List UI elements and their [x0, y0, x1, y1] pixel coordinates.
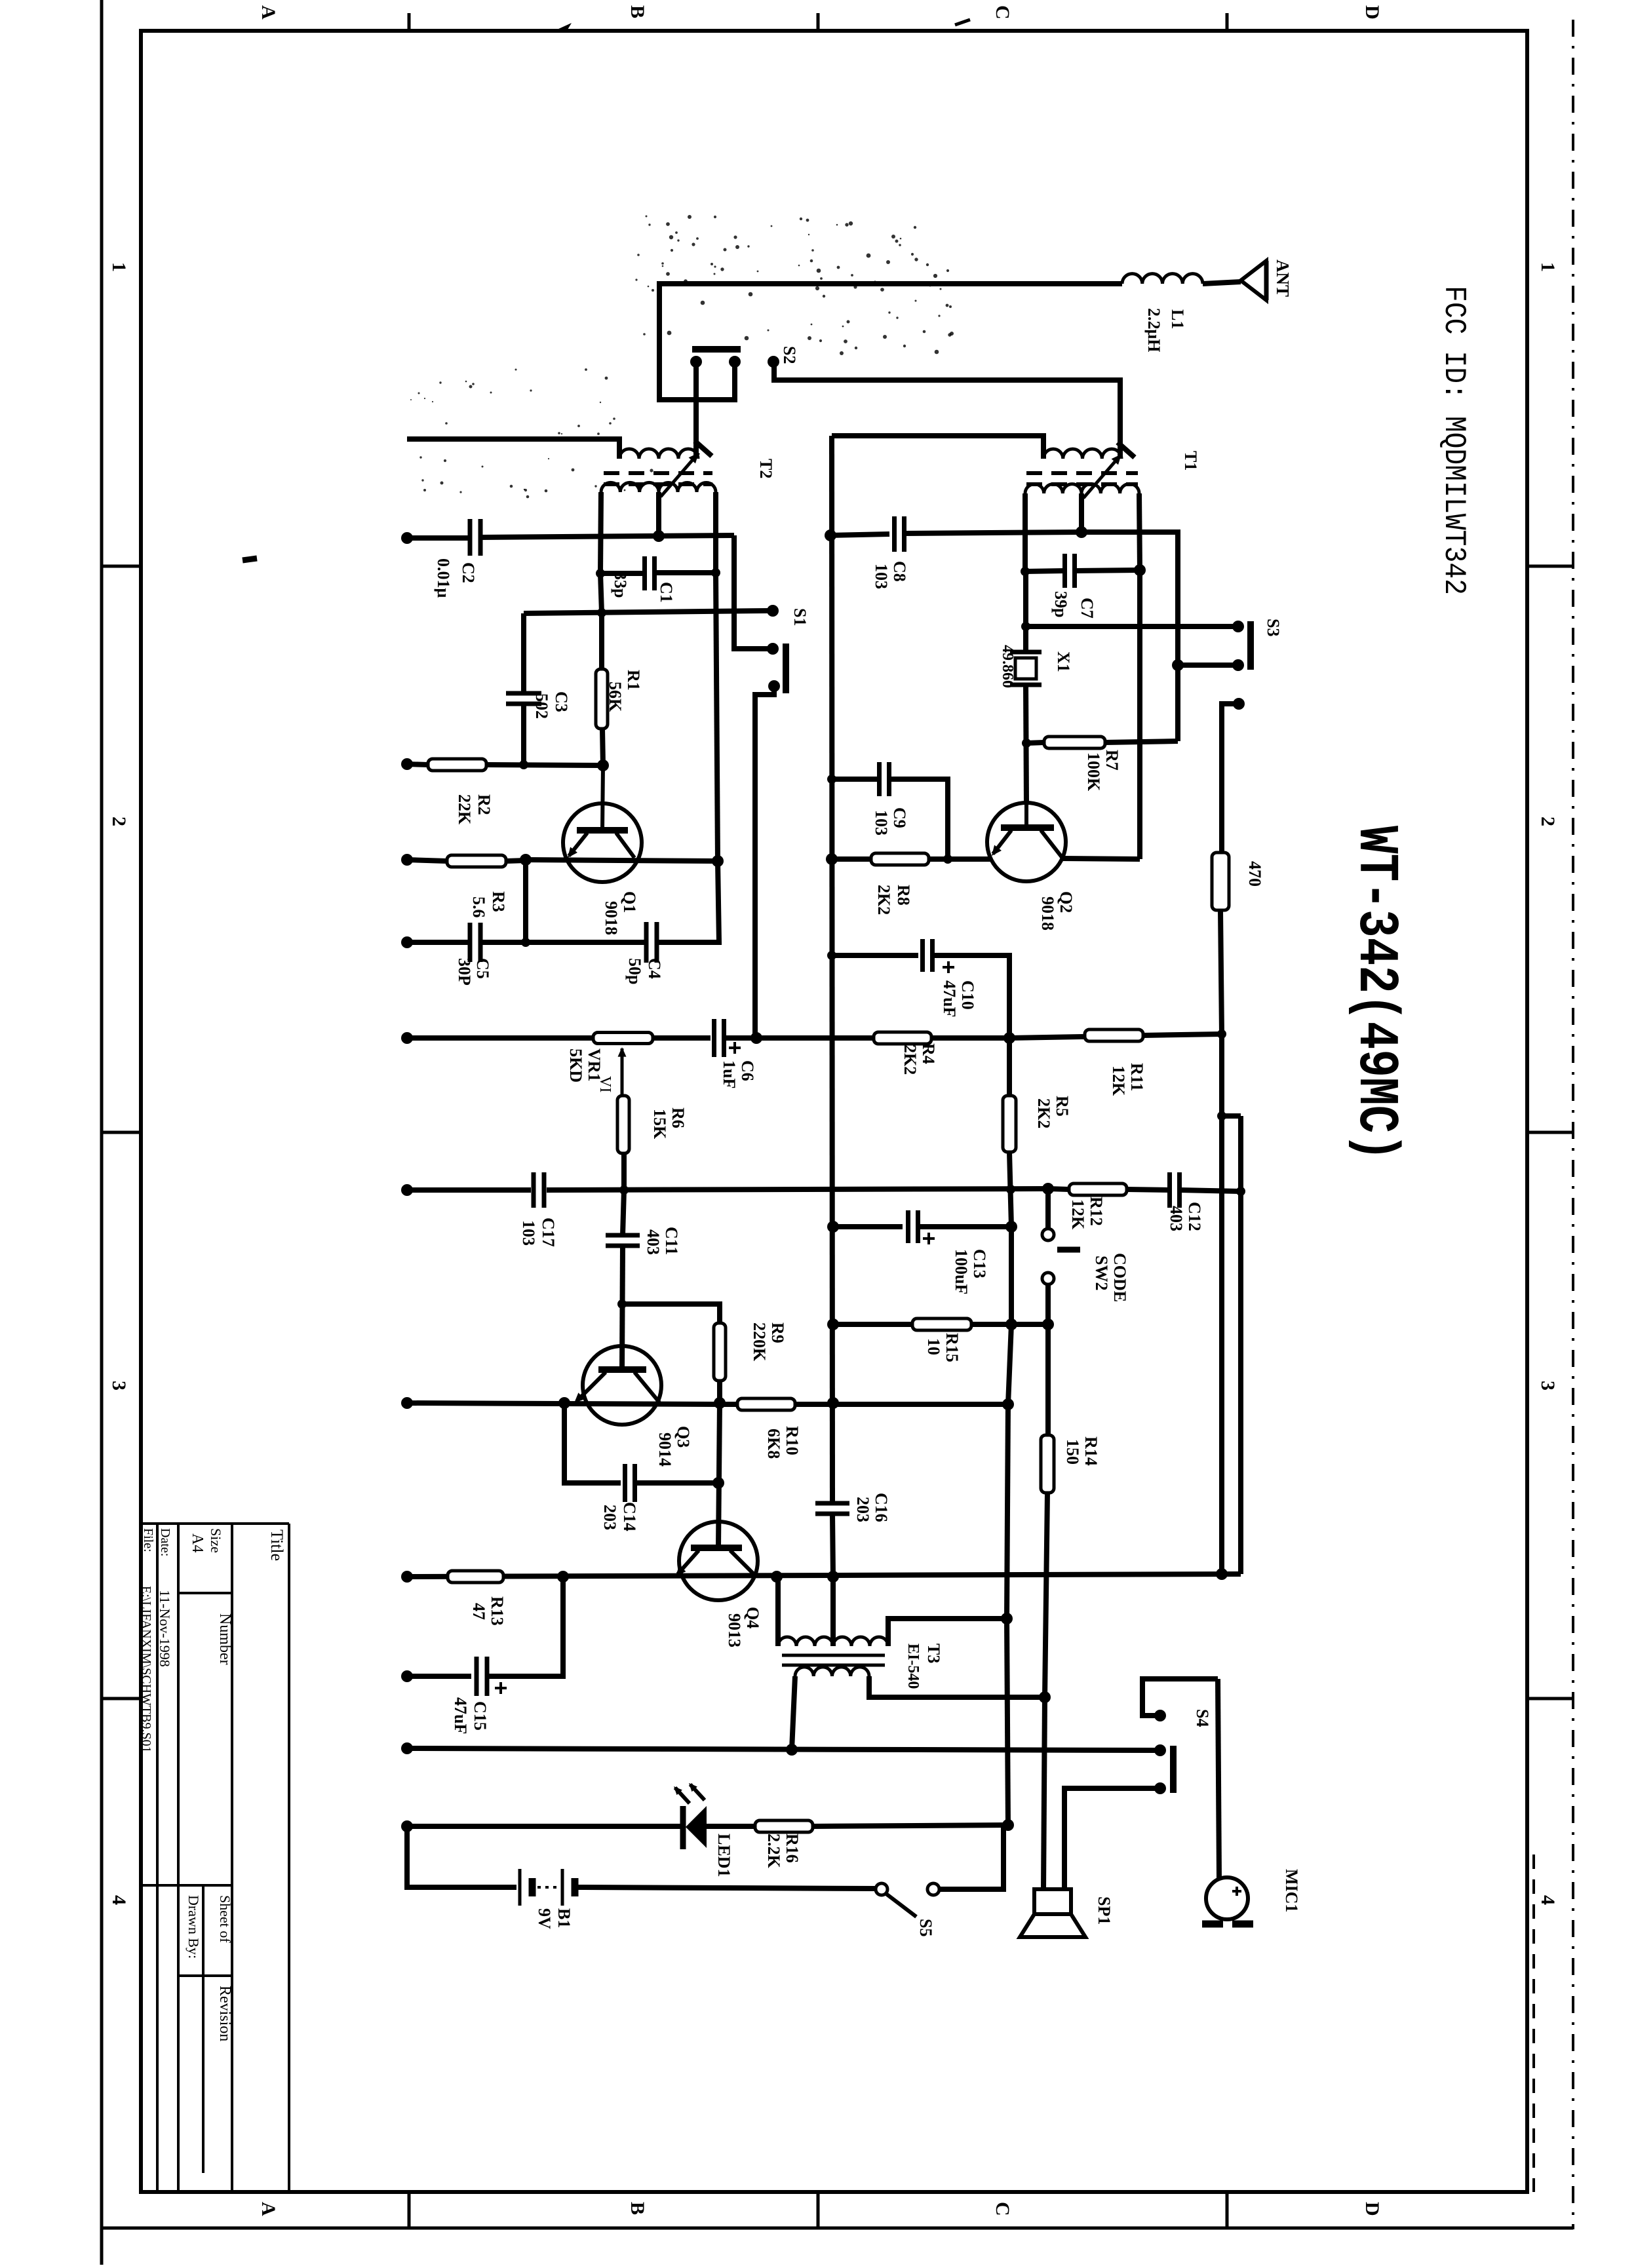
wire T2 secondary right leg — [713, 492, 718, 573]
wire R14 column top — [1045, 1324, 1051, 1435]
node R9 bottom junction — [714, 1397, 726, 1409]
svg-text:Sheet of: Sheet of — [217, 1895, 233, 1943]
switch S1 bottom contact — [768, 680, 780, 692]
svg-text:2: 2 — [1537, 817, 1559, 826]
zone tick marks right — [1527, 565, 1573, 568]
wire R5 bottom column — [1009, 1152, 1011, 1227]
capacitor C2 — [468, 519, 473, 556]
node R16 right junction — [1002, 1819, 1014, 1831]
wire R9 top link — [622, 1304, 720, 1323]
zone tick marks bottom — [408, 2192, 411, 2228]
node emitter rail right junction — [712, 855, 724, 867]
svg-text:C17: C17 — [539, 1218, 558, 1247]
wire SW2 bottom — [1045, 1284, 1051, 1324]
wire Q2 emitter link — [929, 856, 991, 862]
capacitor C8 — [892, 516, 897, 552]
svg-text:2.2μH: 2.2μH — [1144, 308, 1163, 352]
svg-text:C: C — [992, 2202, 1013, 2216]
wire T1 secondary tap — [1079, 493, 1084, 532]
node R13 right junction — [557, 1571, 569, 1583]
node C13 left junction — [827, 1221, 839, 1233]
wire V rail vertical lower — [832, 1514, 833, 1577]
node R2 right junction — [597, 759, 609, 771]
node R5 C17rail junction — [1006, 1185, 1015, 1194]
svg-text:C3: C3 — [552, 691, 571, 712]
wire T3 primary left leg — [775, 1577, 781, 1646]
wire T2 secondary left leg — [600, 492, 601, 573]
wire right column C12 branch — [1238, 1116, 1243, 1574]
capacitor C13 — [906, 1210, 910, 1243]
svg-text:R11: R11 — [1127, 1063, 1146, 1091]
svg-text:Q2: Q2 — [1057, 891, 1076, 913]
wire supply rail VR1 row — [407, 1035, 593, 1041]
wire R12 left — [1048, 1189, 1069, 1189]
wire T1 primary right leg — [1118, 380, 1123, 459]
capacitor C9 — [877, 762, 882, 796]
svg-text:R7: R7 — [1102, 750, 1121, 771]
wire C17 right — [547, 1189, 1048, 1190]
node C7 left junction — [1021, 567, 1030, 576]
svg-text:103: 103 — [872, 564, 891, 589]
node R2 left rail junction — [401, 758, 413, 770]
wire antenna line to S2 loop — [659, 284, 1122, 400]
wire R8 left — [832, 856, 871, 862]
svg-text:Q1: Q1 — [620, 891, 639, 913]
wire C7 right — [1075, 570, 1140, 571]
wire Q3 emitter rail — [407, 1403, 720, 1404]
wire column to R16 rail — [1007, 1619, 1008, 1825]
wire 470 bottom — [1220, 910, 1222, 1034]
wire C13 rail — [833, 1224, 903, 1229]
node T3 left leg junction — [771, 1571, 783, 1583]
svg-text:R8: R8 — [894, 885, 913, 906]
switch S2 throw contact — [768, 356, 779, 368]
svg-text:Q4: Q4 — [743, 1607, 762, 1628]
wire C5 to C4 — [480, 940, 646, 945]
resistor R3 — [447, 855, 506, 867]
svg-text:S1: S1 — [790, 608, 809, 626]
wire T2 left leg down to R1 top node — [600, 573, 602, 613]
transformer T2 tuning arrow — [661, 453, 699, 497]
wire S4 upper to MIC column — [1142, 1679, 1218, 1716]
svg-text:C: C — [992, 5, 1013, 20]
svg-text:R13: R13 — [488, 1596, 507, 1626]
sheet border outer left line — [100, 0, 104, 2265]
svg-text:11-Nov-1998: 11-Nov-1998 — [157, 1590, 173, 1667]
sheet border outer right dash-dot line — [1572, 20, 1574, 2229]
svg-text:R3: R3 — [489, 891, 508, 912]
svg-text:47uF: 47uF — [451, 1697, 470, 1734]
node C12 right junction — [1236, 1187, 1245, 1196]
wire S3 bottom link — [1178, 663, 1235, 668]
resistor R4 — [874, 1032, 931, 1044]
svg-text:12K: 12K — [1068, 1199, 1087, 1230]
svg-text:C9: C9 — [890, 807, 909, 828]
capacitor C17 — [532, 1172, 536, 1208]
node X1 top junction — [1021, 622, 1030, 631]
transformer T2 secondary winding — [601, 482, 659, 492]
node T3 secondary right junction — [1039, 1691, 1051, 1703]
wire S1 bottom contact down to supply rail — [755, 689, 774, 1038]
svg-text:150: 150 — [1063, 1439, 1082, 1465]
wire C9 right loop — [889, 779, 948, 859]
capacitor C7 — [1062, 554, 1067, 588]
svg-text:2.2K: 2.2K — [764, 1834, 783, 1869]
node LED rail left junction — [401, 1820, 413, 1832]
switch S1 bar — [783, 644, 789, 693]
wire T2 right leg down to emitter rail — [716, 573, 718, 861]
svg-text:Date:: Date: — [158, 1528, 172, 1556]
resistor R2 — [428, 759, 486, 771]
svg-text:100uF: 100uF — [952, 1249, 971, 1294]
node C3 bottom junction — [519, 760, 528, 769]
wire LED rail — [407, 1824, 682, 1829]
wire X1 top stub — [1023, 571, 1028, 652]
svg-text:File:: File: — [141, 1528, 155, 1552]
wire C12 right — [1180, 1190, 1241, 1191]
wire 470 column lower — [1219, 1034, 1224, 1574]
svg-text:C7: C7 — [1078, 598, 1097, 619]
transformer T3 secondary winding — [795, 1667, 869, 1676]
title block divider number-revision — [178, 1974, 232, 1977]
wire C13 right — [918, 1224, 1011, 1229]
svg-text:D: D — [1361, 5, 1383, 20]
wire T3 primary center tap — [830, 1577, 836, 1646]
node right link junction — [1217, 1111, 1226, 1121]
svg-text:R9: R9 — [768, 1322, 787, 1343]
wire Q4 collector rail — [407, 1574, 1241, 1577]
svg-text:R10: R10 — [783, 1426, 802, 1455]
svg-text:470: 470 — [1245, 861, 1264, 887]
svg-text:49.860: 49.860 — [999, 645, 1016, 688]
wire R15 right — [971, 1322, 1048, 1327]
wire R14 bottom — [1045, 1493, 1047, 1697]
svg-text:50p: 50p — [625, 958, 644, 984]
svg-text:VI: VI — [596, 1076, 613, 1092]
wire ground rail — [407, 1748, 1156, 1750]
capacitor C1 — [642, 556, 647, 590]
C10 polarity plus — [943, 966, 954, 969]
transistor Q2 — [987, 803, 1066, 881]
svg-text:B: B — [627, 2202, 648, 2215]
svg-text:203: 203 — [853, 1497, 872, 1522]
svg-text:403: 403 — [644, 1229, 663, 1255]
node C9 emitter junction — [943, 855, 952, 864]
transistor Q1 — [563, 803, 642, 882]
wire C3 loop top — [521, 613, 526, 693]
node T3 tap junction — [827, 1571, 839, 1583]
wire column to Q3 rail — [1008, 1324, 1011, 1404]
svg-text:9013: 9013 — [725, 1613, 744, 1647]
svg-text:R12: R12 — [1087, 1197, 1106, 1226]
transistor Q3 — [583, 1346, 661, 1425]
svg-text:100K: 100K — [1084, 752, 1103, 792]
svg-text:1: 1 — [1537, 262, 1559, 272]
svg-text:C4: C4 — [645, 958, 664, 979]
wire T1 secondary right leg — [1139, 493, 1140, 570]
svg-text:B: B — [627, 5, 648, 18]
title block divider date-sheet column — [141, 1884, 232, 1887]
node R7 left junction — [1022, 739, 1031, 748]
node C5 left rail junction — [401, 936, 413, 948]
svg-text:EI-540: EI-540 — [905, 1643, 922, 1689]
svg-text:33p: 33p — [611, 571, 630, 598]
inductor L1 coil — [1122, 274, 1203, 284]
svg-text:C1: C1 — [657, 582, 676, 603]
node C5 rail junction — [521, 938, 530, 947]
svg-text:9014: 9014 — [655, 1432, 674, 1467]
wire C14 loop — [564, 1403, 621, 1483]
svg-text:103: 103 — [519, 1220, 538, 1246]
wire T1 primary left top — [832, 436, 1043, 459]
resistor R9 — [714, 1323, 726, 1381]
microphone MIC1 — [1206, 1877, 1248, 1919]
svg-text:R5: R5 — [1053, 1096, 1072, 1117]
svg-text:4: 4 — [1537, 1895, 1559, 1905]
wire C10 rail — [832, 953, 918, 958]
wire V rail vertical upper — [832, 436, 832, 1503]
capacitor C12 — [1167, 1172, 1172, 1208]
wire column to T3 right — [1007, 1404, 1008, 1619]
svg-text:R16: R16 — [783, 1834, 802, 1863]
resistor R14 — [1041, 1435, 1054, 1493]
svg-text:C6: C6 — [738, 1060, 757, 1081]
wire MIC column — [1218, 1679, 1219, 1878]
svg-text:103: 103 — [872, 810, 891, 836]
resistor R12 — [1069, 1183, 1127, 1195]
svg-text:C15: C15 — [471, 1701, 490, 1731]
switch SW2 top contact — [1042, 1229, 1054, 1240]
wire R3 right — [506, 860, 526, 861]
switch S5 left contact — [876, 1883, 887, 1895]
node T2 tap junction — [653, 530, 665, 542]
svg-text:0.01μ: 0.01μ — [434, 558, 453, 598]
svg-text:MIC1: MIC1 — [1282, 1869, 1301, 1912]
svg-text:T1: T1 — [1181, 451, 1200, 471]
svg-text:10: 10 — [924, 1338, 943, 1355]
wire C10 right loop to R5 top — [933, 955, 1009, 1038]
svg-text:3: 3 — [108, 1381, 130, 1391]
node S1 feed junction — [750, 1032, 762, 1044]
resistor R13 — [448, 1571, 503, 1583]
wire R14 column to speaker — [1043, 1697, 1045, 1889]
wire T1 tap rail to S3 column — [1081, 532, 1178, 741]
zone tick marks top — [408, 13, 411, 31]
svg-text:9018: 9018 — [1038, 896, 1057, 931]
switch S5 right contact — [927, 1883, 939, 1895]
transformer T1 tuning arrow — [1083, 454, 1121, 498]
svg-text:T2: T2 — [756, 459, 775, 478]
switch S4 upper contact — [1154, 1710, 1166, 1721]
battery B1 — [518, 1869, 522, 1906]
svg-text:B1: B1 — [555, 1908, 574, 1928]
wire S5 right to supply column — [939, 1825, 1003, 1889]
node R8 junction — [826, 853, 838, 865]
wire Q2 collector link — [1062, 858, 1140, 859]
switch S4 middle contact — [1154, 1744, 1166, 1756]
node ground rail left junction — [401, 1742, 413, 1754]
svg-text:1uF: 1uF — [720, 1060, 739, 1088]
wire C1 right — [655, 570, 716, 575]
resistor R7 — [1044, 737, 1105, 748]
svg-text:5KD: 5KD — [566, 1048, 585, 1083]
wire C9 rail — [832, 777, 878, 782]
wire column to R15 rail — [1009, 1227, 1014, 1324]
switch S3 bottom contact — [1232, 659, 1244, 671]
node C8 junction — [825, 529, 836, 541]
resistor R16 — [755, 1820, 813, 1832]
wire right link — [1222, 1113, 1241, 1119]
switch SW2 bottom contact — [1042, 1273, 1054, 1284]
wire S1 top wire — [524, 611, 768, 613]
node C13 right junction — [1005, 1221, 1017, 1233]
transformer T2 primary winding — [619, 449, 698, 459]
wire R11 right — [1143, 1034, 1222, 1035]
title block divider size-number — [178, 1592, 232, 1594]
svg-text:2K2: 2K2 — [901, 1045, 920, 1075]
wire C14 right — [635, 1480, 718, 1486]
crystal X1 — [1010, 650, 1042, 655]
node C1 left junction — [596, 569, 605, 578]
node R3 left rail junction — [401, 854, 413, 866]
svg-text:Size: Size — [208, 1528, 224, 1553]
transformer T1 primary winding — [1043, 449, 1121, 459]
wire L1 to ANT — [1203, 282, 1241, 284]
wire LED to R16 — [707, 1824, 755, 1829]
switch contact to resistor 470 — [1233, 698, 1245, 710]
svg-text:T3: T3 — [924, 1643, 943, 1663]
node Q3 rail left junction — [401, 1397, 413, 1409]
transformer T1 secondary winding — [1025, 484, 1081, 493]
switch S5 lever — [886, 1894, 916, 1917]
title block divider sheet-drawnby — [202, 1885, 204, 2173]
svg-text:2K2: 2K2 — [1034, 1098, 1053, 1128]
wire R6 bottom — [621, 1153, 627, 1190]
svg-text:220K: 220K — [750, 1322, 769, 1362]
wire T2 tap to S1 middle contact — [734, 535, 768, 649]
LED LED1 symbol — [680, 1806, 686, 1849]
resistor R1 — [596, 669, 608, 729]
capacitor C14 — [623, 1464, 627, 1502]
node VR1 rail left junction — [401, 1032, 413, 1044]
node C14 base junction — [712, 1477, 724, 1489]
svg-text:C13: C13 — [970, 1249, 989, 1278]
wire C7 left — [1025, 571, 1065, 571]
node C7 right junction — [1134, 564, 1146, 576]
svg-text:Q3: Q3 — [674, 1426, 693, 1448]
capacitor C15 — [475, 1657, 479, 1696]
wire R1 bottom — [602, 729, 603, 765]
svg-text:C2: C2 — [459, 562, 478, 583]
svg-text:4: 4 — [108, 1895, 130, 1905]
wire SW2 top — [1045, 1189, 1051, 1229]
node C2 left rail junction — [401, 532, 413, 544]
wire C15 right loop to R13 — [487, 1577, 563, 1676]
svg-text:CODE: CODE — [1110, 1253, 1129, 1302]
wire C5 rail left — [407, 940, 470, 945]
resistor 470 — [1212, 853, 1229, 910]
svg-text:30P: 30P — [455, 958, 474, 986]
wire R5 column — [1007, 1038, 1012, 1096]
wire C15 rail — [407, 1674, 471, 1679]
svg-text:L1: L1 — [1168, 309, 1187, 329]
switch S4 bar — [1170, 1746, 1177, 1793]
C13 polarity plus — [923, 1237, 935, 1240]
svg-text:Drawn By:: Drawn By: — [185, 1895, 202, 1959]
VR1 wiper arrow — [621, 1048, 624, 1096]
svg-text:SW2: SW2 — [1092, 1256, 1111, 1290]
wire X1 bottom to Q2 base — [1026, 685, 1026, 803]
wire C3 to R2 node — [521, 704, 526, 765]
svg-text:12K: 12K — [1109, 1066, 1128, 1096]
svg-text:1: 1 — [108, 262, 130, 272]
switch S1 top contact — [767, 605, 779, 617]
wire R3 left — [407, 860, 447, 861]
wire left rail top to T2 primary — [407, 439, 619, 459]
svg-text:15K: 15K — [650, 1109, 669, 1140]
svg-text:D: D — [1361, 2202, 1383, 2216]
capacitor C11 — [606, 1233, 640, 1238]
switch S2 bar — [692, 346, 741, 353]
svg-text:2K2: 2K2 — [874, 885, 893, 915]
wire T3 secondary right leg — [869, 1676, 1045, 1697]
node T1 tap junction — [1076, 526, 1087, 538]
svg-text:6K8: 6K8 — [764, 1429, 783, 1459]
svg-text:R14: R14 — [1081, 1436, 1100, 1466]
scan noise specks — [733, 235, 737, 239]
svg-text:39p: 39p — [1051, 591, 1070, 617]
svg-text:9V: 9V — [535, 1908, 554, 1929]
wire R2 left — [407, 764, 428, 765]
svg-text:R2: R2 — [475, 794, 494, 815]
node R10 right V rail junction — [827, 1397, 839, 1409]
wire C8 rail — [830, 534, 889, 535]
wire T1 secondary left leg — [1022, 493, 1028, 571]
wire R15 rail — [833, 1322, 912, 1327]
svg-text:C5: C5 — [473, 958, 492, 979]
resistor R11 — [1085, 1029, 1143, 1041]
wire stub C3 node to C5 rail — [523, 860, 528, 942]
switch S4 lower contact — [1154, 1782, 1166, 1794]
wire R7 right — [1105, 741, 1178, 742]
C6 polarity plus — [729, 1047, 741, 1049]
svg-text:9018: 9018 — [602, 901, 621, 935]
node C17 rail left junction — [401, 1184, 413, 1196]
wire S4 lower to speaker — [1064, 1788, 1156, 1889]
svg-text:S3: S3 — [1264, 619, 1283, 636]
transformer T3 primary winding — [778, 1637, 833, 1646]
speaker SP1 — [1034, 1889, 1071, 1914]
sheet border dash line near right frame — [1532, 1855, 1535, 2192]
wire S2 left contact to T2 primary — [693, 364, 699, 459]
wire Q1 emitter rail — [526, 860, 718, 861]
node SW2 bottom junction — [1042, 1318, 1054, 1330]
node T3 primary right junction — [1001, 1613, 1013, 1624]
wire T3 primary right leg — [888, 1619, 1007, 1646]
wire R1 top — [599, 613, 604, 669]
wire VR1 to C6 — [653, 1035, 711, 1041]
capacitor C6 — [712, 1019, 716, 1057]
wire C1 left — [600, 571, 644, 576]
node Q3 emitter junction — [558, 1397, 570, 1409]
potentiometer VR1 — [593, 1033, 653, 1044]
node Q4 rail left junction — [401, 1571, 413, 1583]
capacitor C10 — [920, 939, 925, 972]
svg-text:C14: C14 — [620, 1502, 639, 1531]
wire R12 right to C12 — [1127, 1189, 1170, 1190]
wire T3 secondary left leg — [792, 1676, 795, 1750]
svg-text:X1: X1 — [1054, 651, 1073, 672]
